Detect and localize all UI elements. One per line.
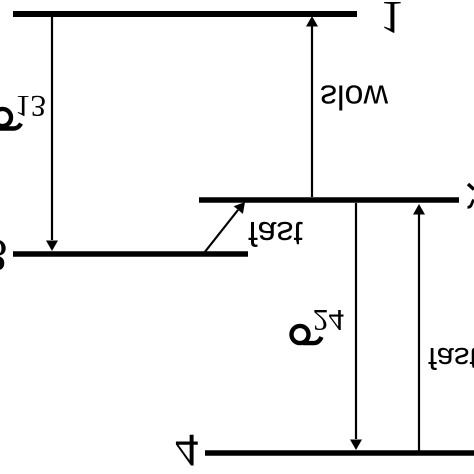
- svg-text:fast: fast: [428, 341, 474, 376]
- arrow sigma13: level 1 up to level 3: [51, 14, 53, 240]
- arrow sigma24: level 2 up to level 4: [355, 203, 357, 439]
- sigma13 glyph (flipped sigma drawn directly): [0, 109, 21, 129]
- svg-text:13: 13: [15, 89, 46, 124]
- svg-text:4: 4: [175, 424, 199, 474]
- svg-text:1: 1: [380, 0, 404, 43]
- level 3 line: [13, 251, 248, 257]
- level 4 line: [205, 450, 474, 456]
- svg-text:3: 3: [0, 229, 8, 281]
- level 2 label sliver marks (flipped "2" cut by right edge): [468, 184, 474, 207]
- arrow fast right: level 4 down to level 2: [418, 214, 420, 452]
- level 2 line: [199, 197, 459, 203]
- svg-text:fast: fast: [248, 214, 303, 252]
- svg-text:24: 24: [313, 303, 345, 338]
- arrow fast: level 3 down-right to level 2: [204, 210, 238, 253]
- arrow slow: level 2 down to level 1: [311, 26, 313, 197]
- svg-text:slow: slow: [320, 78, 388, 116]
- sigma24 glyph (flipped sigma drawn directly): [292, 326, 322, 343]
- level 1 line: [13, 11, 357, 17]
